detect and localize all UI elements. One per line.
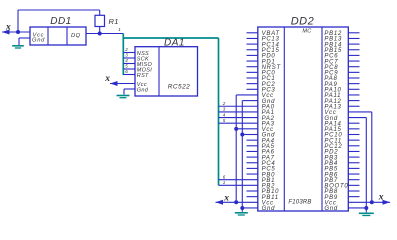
svg-text:RC522: RC522 (168, 84, 190, 91)
svg-text:DQ: DQ (71, 33, 81, 39)
svg-text:DD1: DD1 (50, 16, 72, 27)
svg-text:R1: R1 (109, 17, 119, 26)
svg-text:F103RB: F103RB (288, 199, 311, 205)
svg-text:Gnd: Gnd (262, 206, 276, 212)
svg-text:MC: MC (302, 29, 311, 35)
svg-text:Gnd: Gnd (324, 206, 338, 212)
svg-text:Gnd: Gnd (137, 87, 149, 93)
svg-text:x: x (223, 194, 229, 204)
svg-text:DD2: DD2 (291, 16, 315, 28)
svg-text:x: x (378, 193, 384, 203)
svg-text:Gnd: Gnd (32, 38, 45, 44)
svg-text:2: 2 (222, 101, 226, 106)
svg-text:RST: RST (137, 73, 149, 79)
svg-text:DA1: DA1 (164, 38, 185, 49)
svg-text:x: x (5, 22, 11, 32)
svg-text:2: 2 (124, 47, 128, 52)
svg-text:x: x (104, 74, 110, 84)
